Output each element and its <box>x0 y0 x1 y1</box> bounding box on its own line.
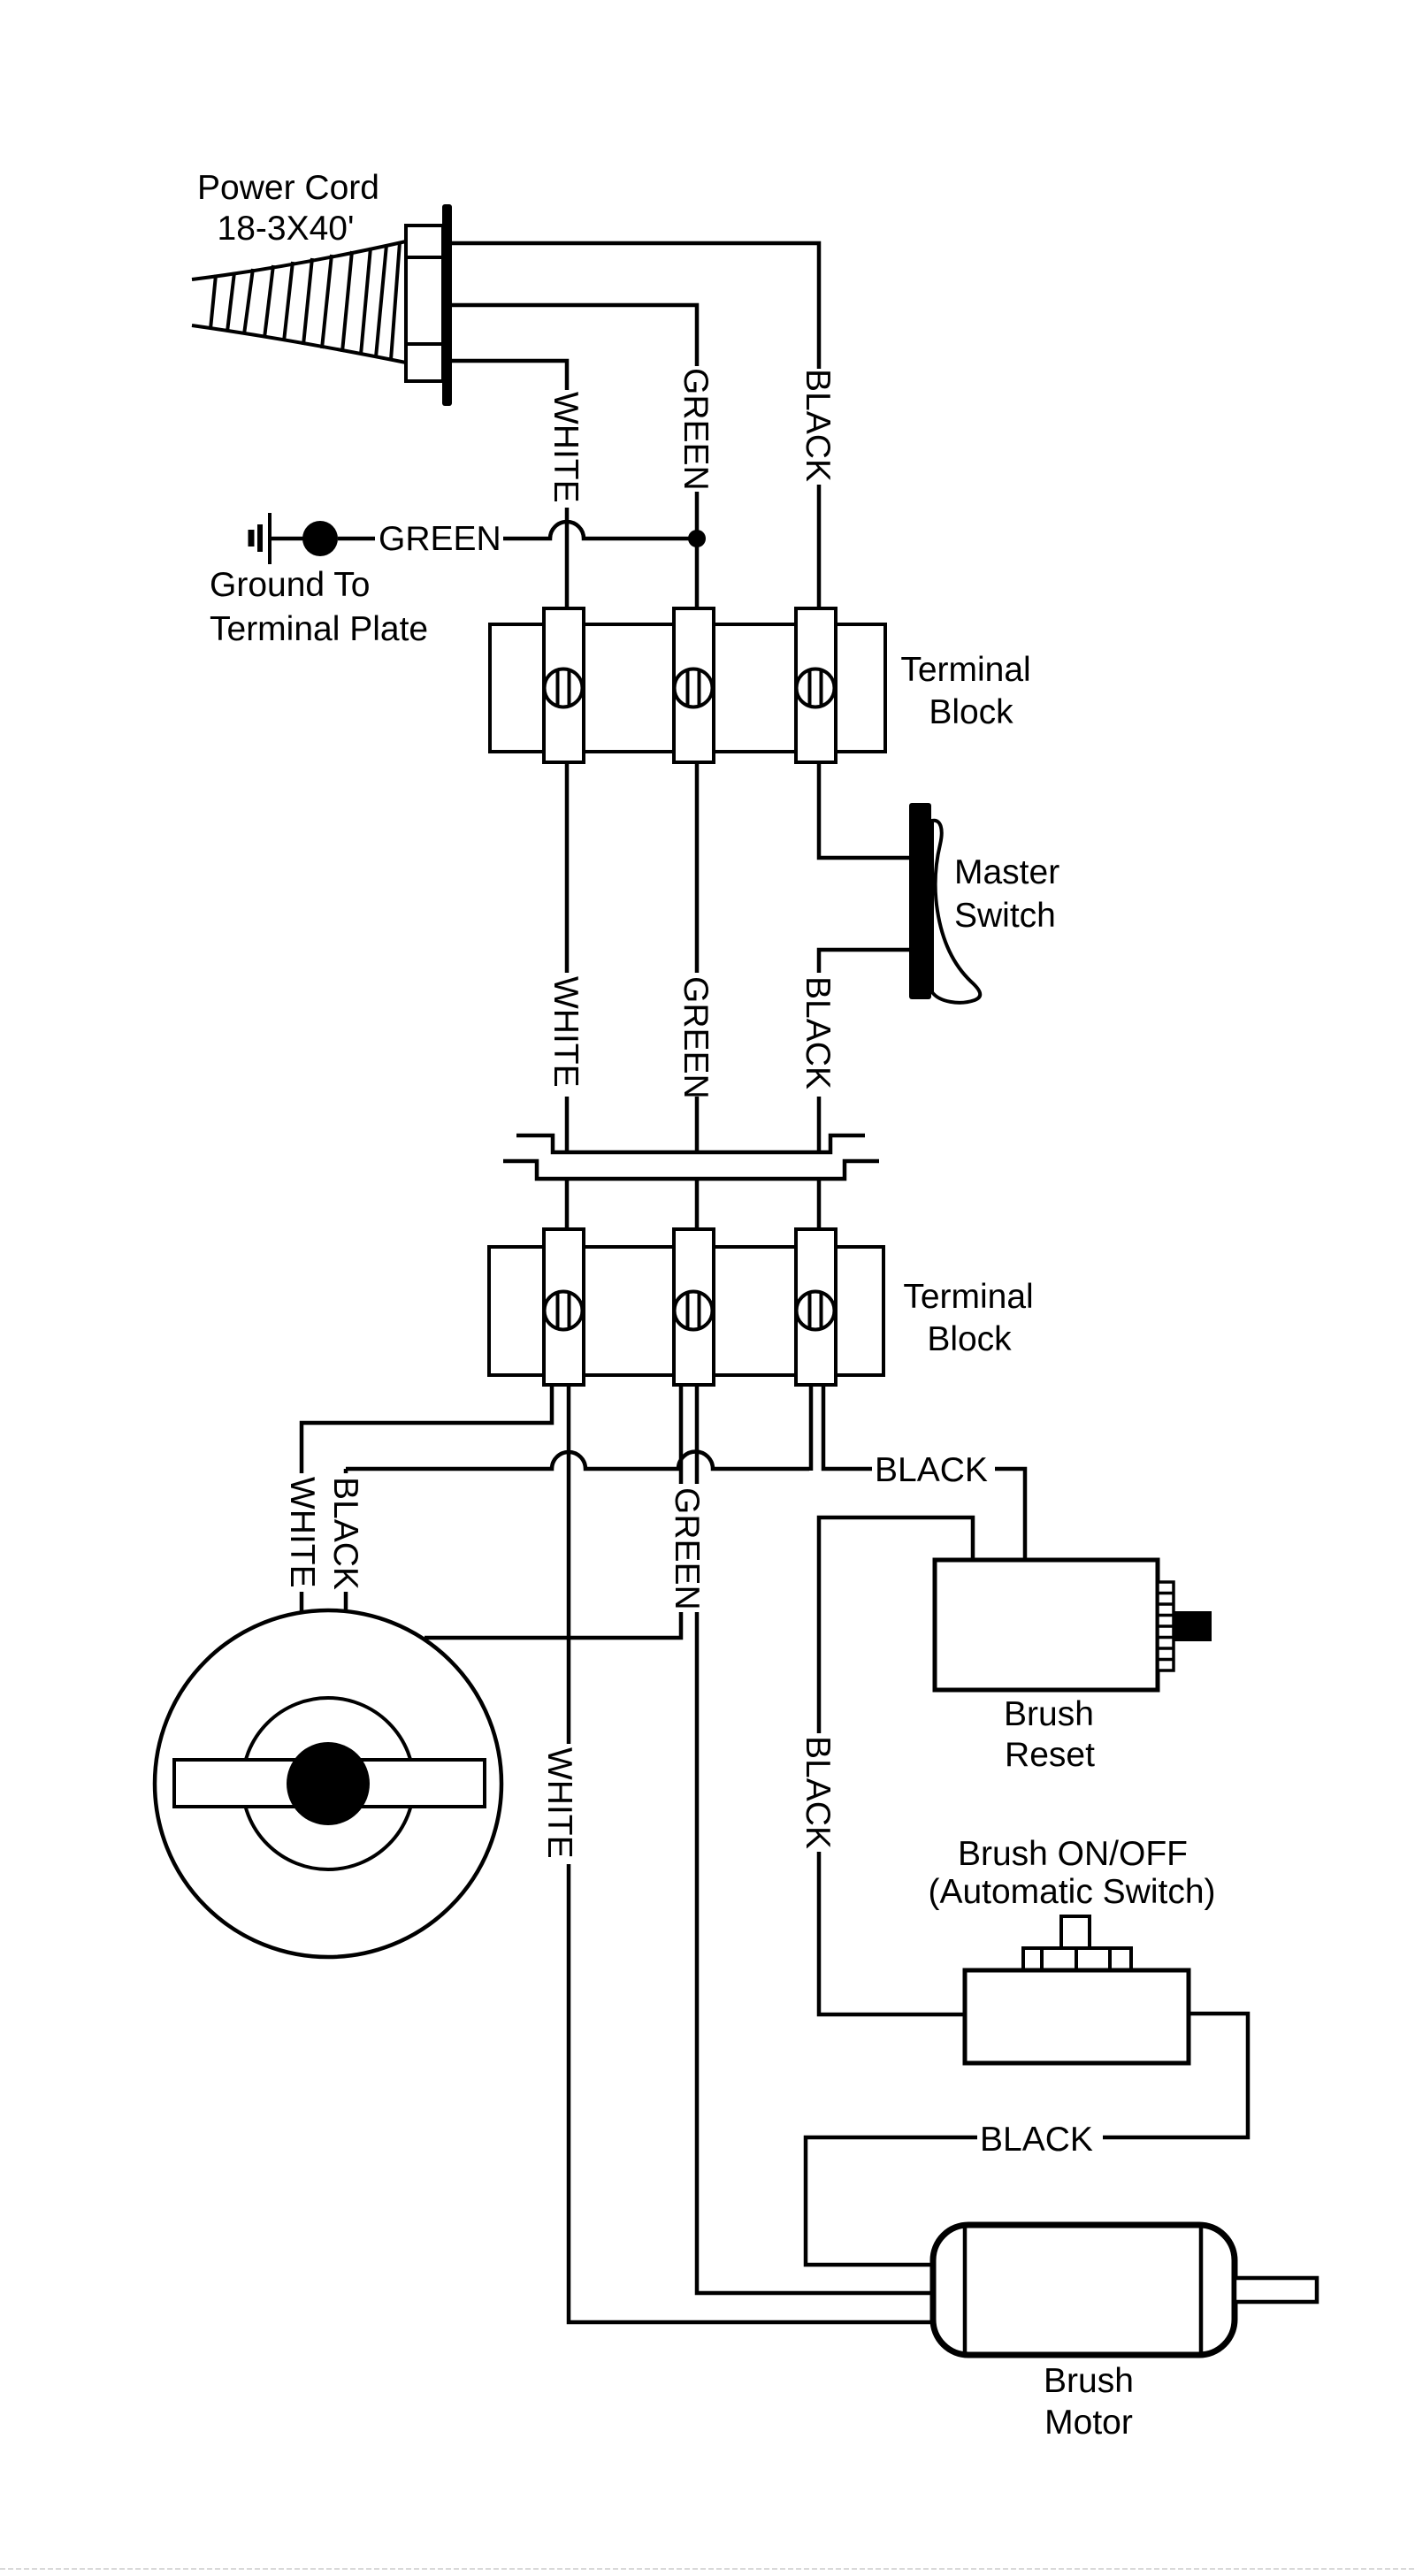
wire white disconnect to block 2 <box>565 1179 570 1231</box>
svg-text:WHITE: WHITE <box>540 1747 578 1859</box>
terminal block 2 strip 1 <box>544 1229 584 1385</box>
brush on/off switch top tab <box>1061 1916 1090 1949</box>
svg-text:GREEN: GREEN <box>668 1487 706 1610</box>
wire black to brush motor <box>806 2137 977 2265</box>
brush on/off switch top bar <box>1023 1948 1131 1970</box>
wire green from plug <box>452 305 697 366</box>
wire white long from strip 1 down <box>567 1385 571 1744</box>
brush motor capsule <box>933 2225 1235 2355</box>
wire black horizontal with hops to strip 3 <box>346 1452 809 1470</box>
wire white-to-vacuum from strip 1 <box>302 1385 552 1473</box>
screw 3 of terminal block 2 <box>797 1292 835 1330</box>
wire white stub to vacuum motor <box>300 1592 304 1613</box>
wire black from plug <box>452 243 819 369</box>
svg-text:BLACK: BLACK <box>799 976 837 1089</box>
svg-text:Power Cord: Power Cord <box>197 169 379 207</box>
terminal block 1 strip 1 <box>544 608 584 762</box>
terminal block 2 body <box>489 1247 883 1375</box>
svg-text:(Automatic Switch): (Automatic Switch) <box>928 1873 1215 1911</box>
wire black disconnect to block 2 <box>817 1179 822 1231</box>
svg-text:WHITE: WHITE <box>547 976 585 1088</box>
quick disconnect upper half <box>516 1135 865 1152</box>
master switch lever <box>932 821 980 1003</box>
terminal block 1 strip 3 <box>796 608 836 762</box>
wire green pair below strip 2 <box>679 1385 684 1484</box>
brush on/off switch body <box>965 1970 1189 2063</box>
screw 1 of terminal block 2 <box>545 1292 583 1330</box>
power cord strain-relief cone with hatching <box>192 241 406 363</box>
brush reset button nub <box>1174 1611 1212 1641</box>
vacuum motor outer circle <box>155 1610 501 1957</box>
brush motor end cap lines <box>963 2228 968 2352</box>
junction dot green/ground <box>688 530 706 547</box>
svg-text:Master: Master <box>954 853 1059 891</box>
terminal block 1 body <box>490 624 885 752</box>
svg-text:BLACK: BLACK <box>799 1736 837 1849</box>
quick disconnect lower half <box>503 1161 879 1179</box>
vacuum motor hub dot <box>287 1742 370 1825</box>
svg-text:BLACK: BLACK <box>980 2121 1093 2159</box>
wire white from plug <box>452 361 567 390</box>
brush reset box <box>935 1560 1158 1690</box>
label Terminal Block (lower) <box>903 1278 1033 1358</box>
label Terminal Block (upper) <box>900 651 1030 731</box>
wire black from brush reset to down-left <box>819 1517 973 1733</box>
ground symbol <box>251 513 305 564</box>
svg-text:Block: Block <box>927 1320 1012 1358</box>
faint bottom rule <box>0 2568 1415 2570</box>
svg-text:Brush: Brush <box>1044 2362 1134 2400</box>
wire black pair below strip 3 <box>809 1385 814 1471</box>
brush reset ridges <box>1158 1582 1174 1670</box>
ground junction dot <box>302 521 338 556</box>
wire green disconnect to block 2 <box>695 1179 700 1231</box>
vacuum motor inner circle <box>242 1698 414 1869</box>
ground green wire with hop over white wire <box>503 522 690 539</box>
wire green to disconnect <box>695 1097 700 1152</box>
wire white to terminal block 1 <box>565 508 570 610</box>
wire black to terminal block 1 <box>817 485 822 610</box>
label Brush Reset <box>1004 1695 1095 1774</box>
svg-text:Brush ON/OFF: Brush ON/OFF <box>958 1835 1188 1873</box>
master switch bar <box>909 803 931 999</box>
vacuum motor bar <box>174 1760 485 1807</box>
plug face thick bar <box>442 204 452 406</box>
terminal block 2 strip 3 <box>796 1229 836 1385</box>
label Ground To Terminal Plate <box>210 566 428 648</box>
wire from ground dot to GREEN label <box>338 537 375 541</box>
screw 2 of terminal block 2 <box>675 1292 713 1330</box>
svg-text:Switch: Switch <box>954 897 1056 935</box>
svg-text:BLACK: BLACK <box>875 1451 988 1489</box>
svg-text:Brush: Brush <box>1004 1695 1094 1733</box>
wire black to disconnect <box>817 1097 822 1152</box>
svg-text:BLACK: BLACK <box>799 369 837 482</box>
wire black below block 1 to master switch <box>819 762 909 858</box>
wire black to brush reset top <box>995 1469 1025 1560</box>
wire green to terminal block 1 <box>695 492 700 610</box>
svg-text:WHITE: WHITE <box>547 392 585 503</box>
label Master Switch <box>954 853 1059 935</box>
svg-text:Terminal: Terminal <box>900 651 1030 689</box>
screw 2 of terminal block 1 <box>675 669 713 707</box>
brush motor shaft <box>1235 2278 1317 2302</box>
terminal block 2 strip 2 <box>674 1229 714 1385</box>
svg-text:Reset: Reset <box>1005 1736 1095 1774</box>
screw 1 of terminal block 1 <box>545 669 583 707</box>
svg-text:Terminal: Terminal <box>903 1278 1033 1316</box>
wire white long to brush motor <box>569 1864 937 2322</box>
label Brush ON/OFF (Automatic Switch) <box>928 1835 1215 1911</box>
svg-text:Block: Block <box>929 693 1013 731</box>
terminal block 1 strip 2 <box>674 608 714 762</box>
screw 3 of terminal block 1 <box>797 669 835 707</box>
wire green below block 1 <box>695 762 700 973</box>
wire white to disconnect <box>565 1097 570 1152</box>
power cord plug body <box>406 225 443 381</box>
wire black to brush on/off switch <box>819 1852 965 2014</box>
svg-text:GREEN: GREEN <box>379 520 501 558</box>
wire green long to brush motor <box>697 1612 937 2293</box>
svg-text:Ground To: Ground To <box>210 566 370 604</box>
svg-text:Terminal Plate: Terminal Plate <box>210 610 428 648</box>
label Power Cord 18-3X40' <box>197 169 379 248</box>
svg-text:18-3X40': 18-3X40' <box>218 210 355 248</box>
wire green to vacuum motor <box>424 1612 681 1638</box>
wire black stub to vacuum motor <box>344 1592 348 1616</box>
wire black from switch right side <box>1103 2014 1248 2137</box>
svg-text:WHITE: WHITE <box>283 1477 321 1588</box>
label Brush Motor <box>1044 2362 1134 2442</box>
svg-text:GREEN: GREEN <box>677 368 715 491</box>
wire black from master switch down <box>819 950 909 973</box>
wire black stub above label <box>344 1469 348 1473</box>
wire white below block 1 <box>565 762 570 973</box>
svg-text:GREEN: GREEN <box>677 976 715 1099</box>
svg-text:Motor: Motor <box>1044 2404 1133 2442</box>
svg-text:BLACK: BLACK <box>326 1477 364 1590</box>
